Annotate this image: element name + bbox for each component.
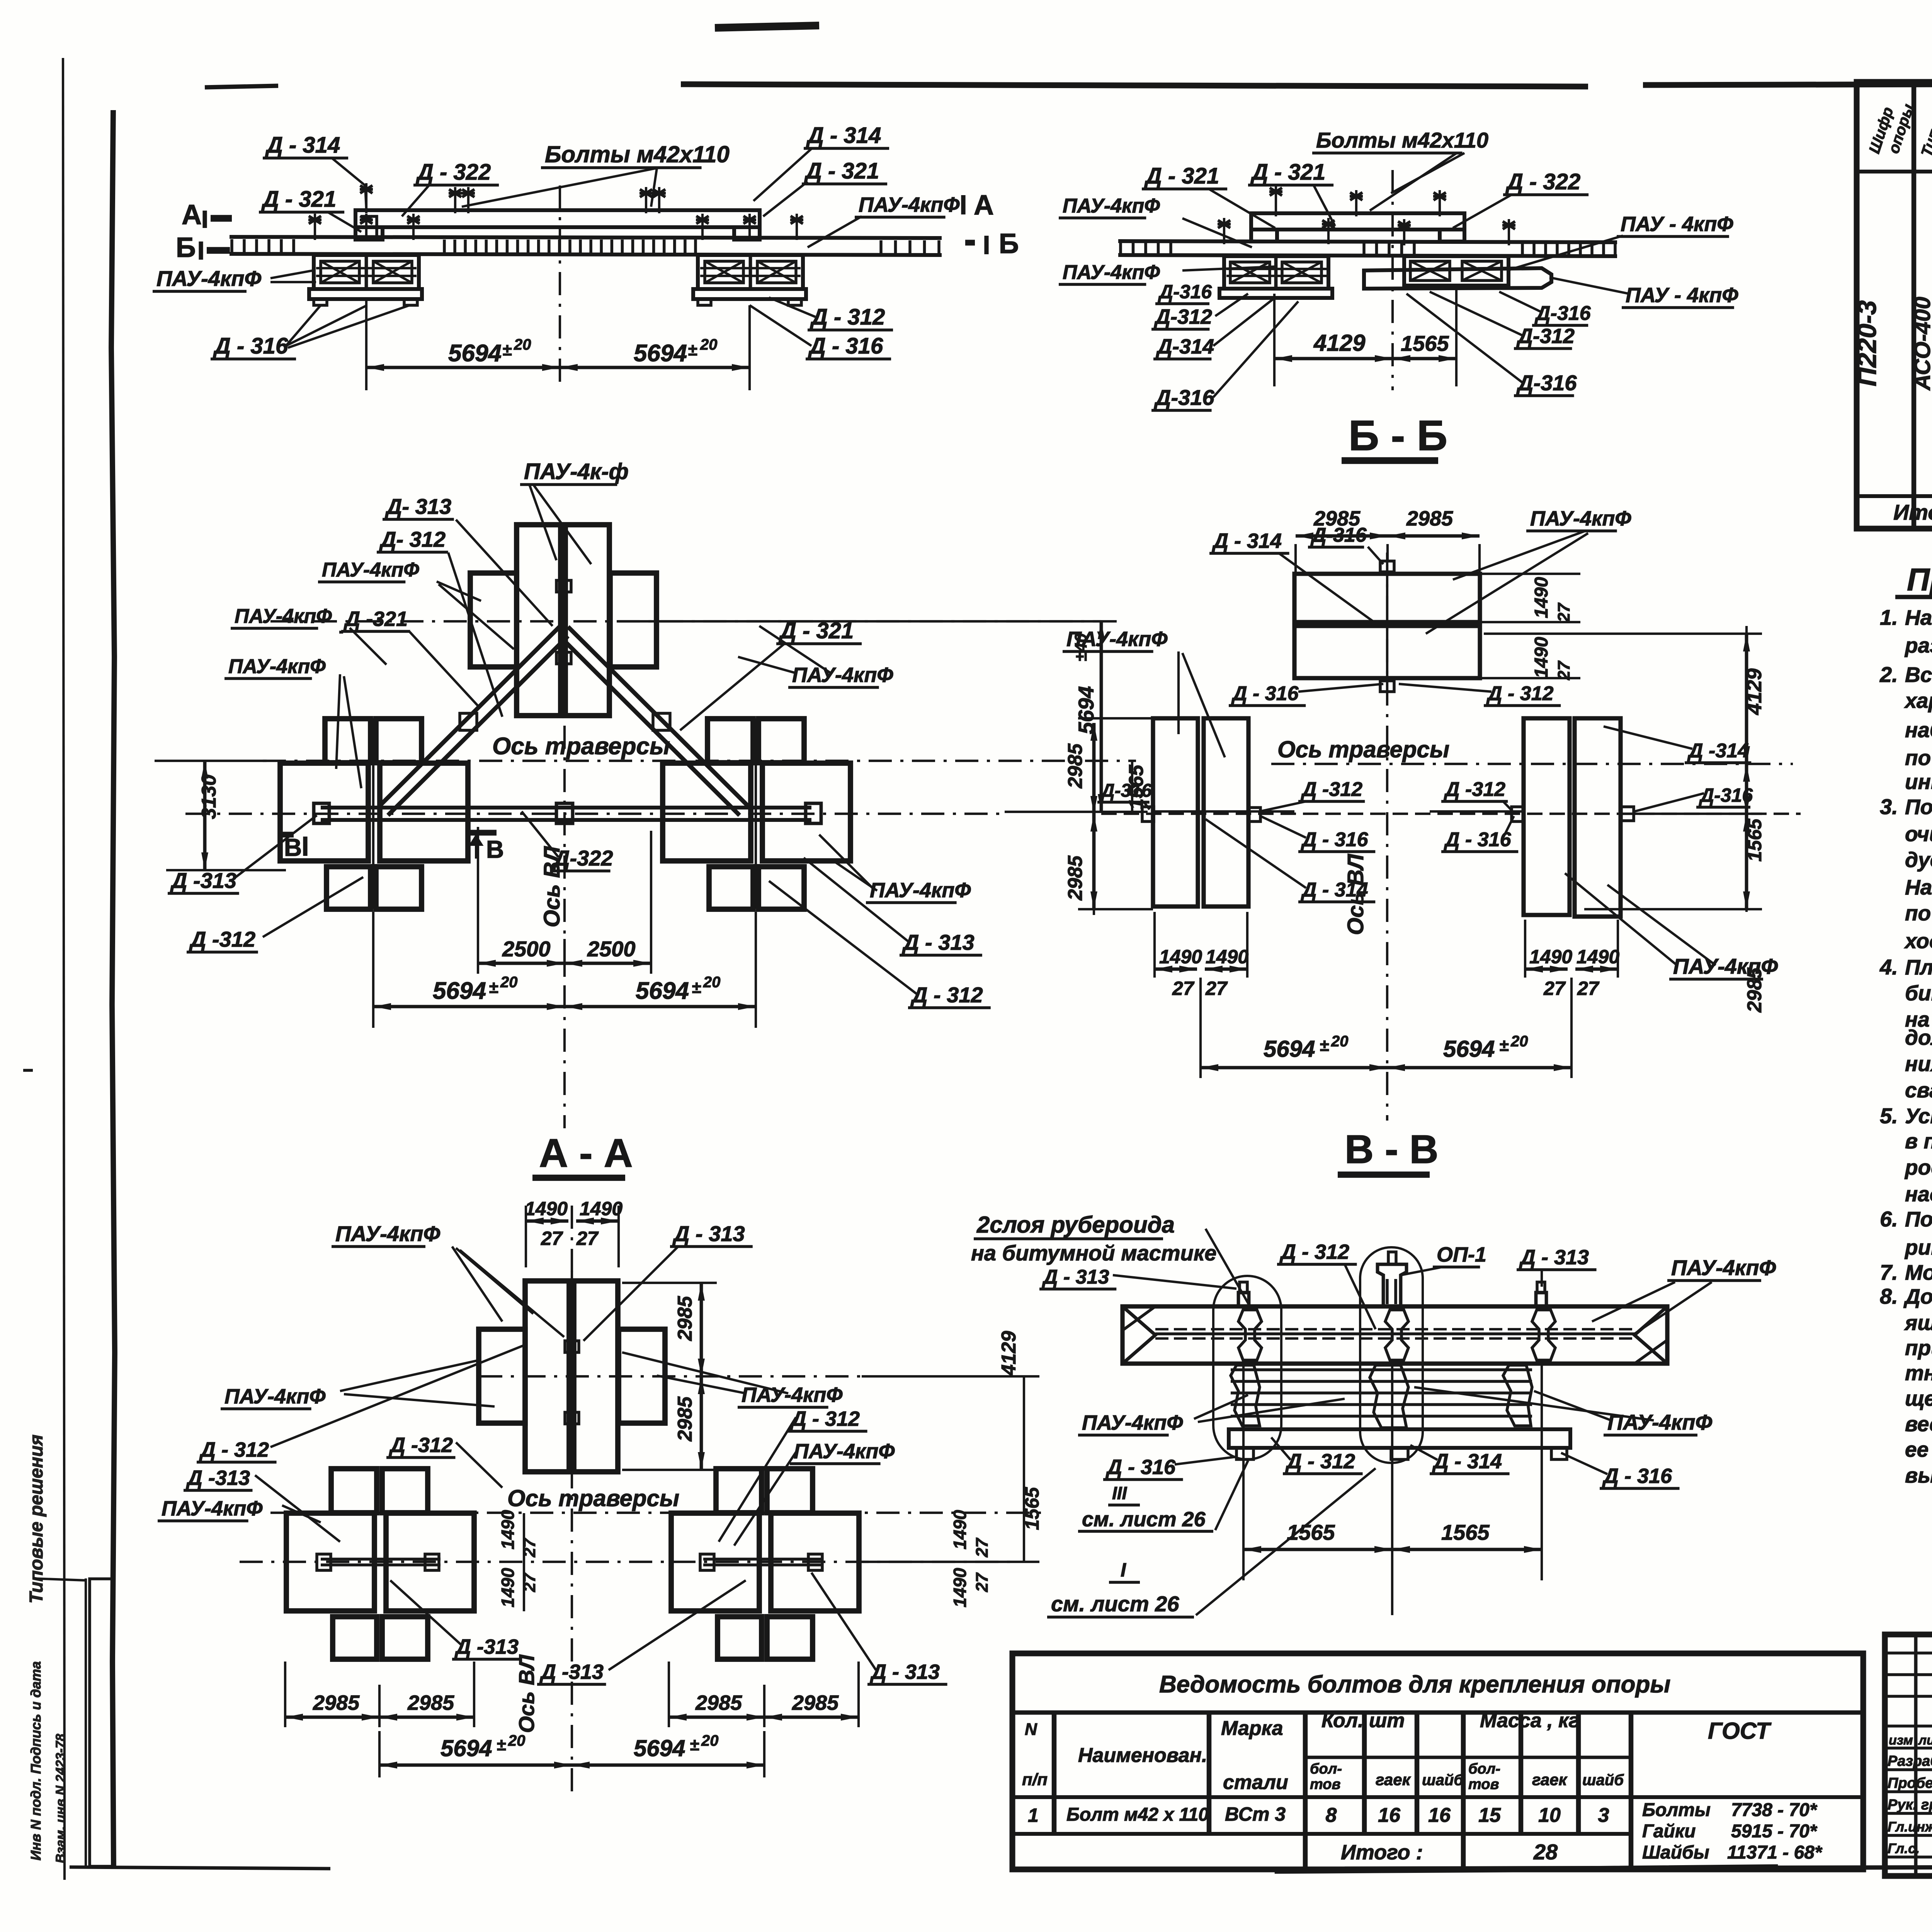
svg-text:Д - 321: Д - 321	[261, 187, 336, 212]
svg-text:5915 - 70*: 5915 - 70*	[1731, 1821, 1818, 1842]
svg-text:ПАУ - 4кпФ: ПАУ - 4кпФ	[1621, 213, 1733, 236]
view2: lower beam lines	[1118, 241, 1617, 242]
view5: bottom-right cross A-A	[671, 1513, 759, 1611]
svg-text:щебнем, камнем неизвестковых: щебнем, камнем неизвестковых пород с объ…	[1905, 1386, 1932, 1410]
svg-text:28: 28	[1533, 1840, 1558, 1864]
svg-text:Д - 312: Д - 312	[790, 1407, 860, 1430]
view3: beam right end connector	[806, 803, 821, 823]
view5: dim 2985 2985 bottom-right	[668, 1662, 670, 1727]
svg-text:1565: 1565	[1021, 1487, 1043, 1530]
svg-text:2985: 2985	[674, 1396, 696, 1442]
svg-text:±: ±	[688, 340, 697, 359]
svg-text:1490: 1490	[498, 1568, 518, 1607]
view6: leader ruberoid	[1206, 1229, 1252, 1310]
svg-text:±: ±	[1320, 1036, 1329, 1055]
svg-text:Д -321: Д -321	[344, 607, 408, 631]
svg-text:А: А	[974, 190, 994, 221]
view6: bolt right on beam top	[1536, 1293, 1546, 1306]
svg-text:ПАУ-4кпФ: ПАУ-4кпФ	[1530, 507, 1631, 530]
view6: vertical bolt lines downward	[1242, 1364, 1245, 1580]
view4: right group axis hardware	[1512, 807, 1523, 821]
svg-text:Д - 316: Д - 316	[213, 333, 288, 359]
svg-text:ПАУ-4кпФ: ПАУ-4кпФ	[335, 1221, 440, 1246]
svg-text:Установка опоры производится: Установка опоры производится после опуск…	[1905, 1104, 1932, 1128]
svg-text:20: 20	[500, 974, 518, 991]
view4: left vertical dim 2985x2	[1093, 723, 1095, 915]
sheet frame: bottom border left segment	[70, 1867, 330, 1869]
svg-text:Болт м42 х 110: Болт м42 х 110	[1066, 1804, 1209, 1825]
svg-text:Д - 314: Д - 314	[1301, 879, 1368, 901]
svg-text:8: 8	[1326, 1804, 1337, 1827]
svg-text:20: 20	[508, 1732, 526, 1749]
svg-text:Примечания: Примечания	[1907, 562, 1932, 597]
svg-text:I: I	[1121, 1559, 1126, 1581]
view3: right dim 5694+-40 rotated	[1100, 621, 1102, 812]
svg-text:Поверхность в месте установк: Поверхность в месте установки ф-та должн…	[1905, 795, 1932, 819]
svg-text:ПАУ-4кпФ: ПАУ-4кпФ	[235, 605, 332, 628]
view5: axis os traversy A-A	[270, 1512, 1043, 1514]
svg-text:Допускается применение фунда: Допускается применение фундаментных блок…	[1903, 1284, 1932, 1308]
svg-text:ПАУ-4кпФ: ПАУ-4кпФ	[228, 655, 326, 678]
svg-text:5694: 5694	[1264, 1036, 1315, 1062]
svg-text:наблюдения в процессе монтаж: наблюдения в процессе монтажа приведены …	[1905, 718, 1932, 742]
svg-text:в проектное положение , при: в проектное положение , при этом верхние…	[1905, 1129, 1932, 1153]
svg-text:ВСт 3: ВСт 3	[1225, 1803, 1286, 1825]
svg-text:бол-: бол-	[1468, 1761, 1500, 1777]
svg-text:1490: 1490	[1159, 946, 1202, 968]
svg-text:Д - 312: Д - 312	[910, 983, 983, 1007]
svg-text:Д - 314: Д - 314	[1432, 1450, 1502, 1473]
svg-text:инв N 1750 - 21 - 77 , Э С П: инв N 1750 - 21 - 77 , Э С П , Свердловс…	[1905, 770, 1932, 794]
table2: outer frame	[1012, 1653, 1863, 1869]
svg-text:1565: 1565	[1441, 1520, 1490, 1544]
svg-text:Ось траверсы: Ось траверсы	[507, 1485, 679, 1511]
svg-text:Д- 312: Д- 312	[379, 527, 446, 551]
view6: bottom plate feet	[1236, 1448, 1253, 1459]
view2: top rostverk beam (elevation)	[1251, 213, 1464, 230]
view3: bottom-right foundation cross (plan)	[663, 763, 751, 861]
view1: ground hatch right	[879, 240, 883, 253]
view5: bottom-left cross A-A	[286, 1513, 374, 1611]
svg-text:Д - 316: Д - 316	[1444, 828, 1512, 851]
svg-text:1565: 1565	[1287, 1520, 1335, 1544]
svg-text:Б: Б	[176, 232, 196, 263]
view3: right dim 1565 rotated	[1131, 761, 1133, 812]
view3: central hinge on beam	[556, 803, 573, 823]
svg-text:Д-314: Д-314	[1156, 335, 1214, 358]
svg-text:15: 15	[1478, 1804, 1501, 1827]
view2: left assembly inner detail lines	[1226, 268, 1327, 270]
view1: dimension extension line right	[748, 305, 751, 390]
svg-text:2500: 2500	[587, 937, 636, 961]
view2: anchor bolts on beams view2	[1275, 185, 1277, 216]
svg-text:ПАУ-4кпФ: ПАУ-4кпФ	[1673, 954, 1778, 978]
svg-text:Д -313: Д -313	[186, 1466, 250, 1490]
view1: ground hatch middle	[443, 240, 446, 253]
svg-text:5694: 5694	[636, 978, 689, 1004]
svg-text:27: 27	[1205, 978, 1228, 999]
svg-text:20: 20	[514, 336, 531, 353]
view6: web stiffeners on beam	[1238, 1310, 1262, 1360]
svg-text:гаек: гаек	[1532, 1770, 1568, 1789]
view3: left dim 3130 rotated	[203, 761, 207, 870]
svg-text:1490: 1490	[1206, 946, 1248, 968]
svg-text:20: 20	[701, 1732, 719, 1749]
svg-text:Кол. шт: Кол. шт	[1321, 1709, 1405, 1732]
view1: right assembly bottom plate	[693, 289, 806, 299]
view4: top plate bolt line	[1386, 565, 1388, 692]
view2: right long plate seen edge-on (PAU)	[1364, 268, 1551, 289]
svg-text:изм: изм	[1889, 1733, 1913, 1748]
svg-text:ПАУ-4кпФ: ПАУ-4кпФ	[1082, 1411, 1183, 1434]
svg-text:Д - 313: Д - 313	[902, 930, 975, 954]
svg-text:11371 - 68*: 11371 - 68*	[1727, 1842, 1823, 1863]
view3: bolt lines through bottom crosses	[372, 718, 374, 909]
svg-text:АСО-400: АСО-400	[1910, 297, 1932, 391]
table1: outer frame	[1857, 82, 1932, 529]
svg-text:27: 27	[973, 1537, 992, 1558]
table2: vertical lines	[1052, 1713, 1057, 1834]
view1: leader D-314 left	[332, 158, 365, 185]
view2: left assembly bottom plate	[1219, 289, 1332, 298]
view6: left detail capsule outline	[1213, 1276, 1281, 1459]
svg-text:см. лист 26: см. лист 26	[1082, 1508, 1206, 1531]
svg-text:Д-312: Д-312	[1516, 325, 1575, 348]
svg-text:Д - 321: Д - 321	[1144, 163, 1219, 189]
view2: dim line 1565	[1393, 357, 1456, 361]
svg-text:на битумной мастике: на битумной мастике	[971, 1241, 1216, 1265]
svg-text:Д-316: Д-316	[1534, 302, 1591, 325]
svg-text:4129: 4129	[1313, 330, 1366, 356]
view5: bolt line through top cross A-A	[571, 1271, 573, 1472]
svg-text:Инв N подл. Подпись и дата: Инв N подл. Подпись и дата	[28, 1661, 44, 1861]
svg-text:На проектную отметку ф-т оп: На проектную отметку ф-т опускается путе…	[1905, 875, 1932, 899]
titleblock: left section verticals	[1914, 1634, 1918, 1876]
svg-text:3130: 3130	[198, 774, 220, 819]
svg-text:Болты м42х110: Болты м42х110	[1316, 128, 1488, 152]
view3: dim 2500 2500	[477, 827, 479, 974]
svg-text:Д - 316: Д - 316	[808, 333, 883, 359]
sheet frame: top border left segment	[681, 84, 1588, 87]
view1: center axis line	[559, 185, 561, 390]
svg-text:1490: 1490	[580, 1198, 622, 1219]
table2: data row bottom line	[1012, 1832, 1631, 1836]
svg-text:Ось траверсы: Ось траверсы	[1277, 736, 1449, 762]
svg-text:по его контуру на расстоянии: по его контуру на расстоянии 1м . При оп…	[1905, 901, 1932, 925]
view3: vertical axis Os VL	[563, 553, 566, 1128]
view3: beam left end connector	[314, 803, 329, 823]
svg-text:20: 20	[703, 974, 721, 991]
svg-text:Д - 321: Д - 321	[1250, 160, 1325, 185]
svg-text:Д-322: Д-322	[553, 846, 613, 870]
view6: beam end X left	[1122, 1306, 1155, 1364]
svg-text:N: N	[1025, 1720, 1037, 1739]
svg-text:8.: 8.	[1880, 1284, 1898, 1308]
misc: small stamp box far bottom-left of title area	[90, 1579, 114, 1866]
view1: dimension line 5694+-20 left segment	[366, 366, 560, 369]
svg-text:ПАУ-4кпФ: ПАУ-4кпФ	[322, 559, 419, 581]
view5: axis through A-A bottom cross row	[240, 1561, 1012, 1563]
svg-text:Взам. инв N 2423-78: Взам. инв N 2423-78	[53, 1734, 68, 1863]
svg-text:2985: 2985	[1406, 507, 1453, 530]
svg-text:Д - 316: Д - 316	[1105, 1456, 1176, 1479]
view2: dim ext lines view2	[1273, 294, 1276, 386]
svg-text:ПАУ - 4кпФ: ПАУ - 4кпФ	[1626, 284, 1738, 307]
svg-text:4129: 4129	[998, 1331, 1020, 1376]
svg-text:высота пригруза h = 0.3 м: высота пригруза h = 0.3 м , Вес Q = 2.0 …	[1905, 1463, 1932, 1487]
svg-text:После установки опоры шайбы: После установки опоры шайбы анкерных бол…	[1905, 1207, 1932, 1231]
svg-text:5694: 5694	[440, 1735, 492, 1761]
view2: left block assembly	[1224, 256, 1328, 289]
svg-text:Б - Б: Б - Б	[1349, 412, 1447, 459]
svg-text:Болты: Болты	[1642, 1800, 1711, 1820]
svg-text:16: 16	[1378, 1804, 1401, 1827]
table1: itogo row top line	[1857, 494, 1932, 498]
svg-text:ПАУ-4кпФ: ПАУ-4кпФ	[224, 1385, 326, 1408]
view3: diagonal beam left (D-321)	[379, 627, 560, 807]
svg-text:В - В: В - В	[1345, 1127, 1439, 1172]
svg-text:П220-3: П220-3	[1852, 300, 1882, 386]
view5: dim 5694+-20 x2 A-A	[378, 1731, 381, 1777]
svg-text:тных блоков , которую следу: тных блоков , которую следует производит…	[1905, 1361, 1932, 1385]
svg-text:Шайбы: Шайбы	[1642, 1842, 1709, 1863]
sheet frame: bottom heavy smudge streak	[1275, 1865, 1777, 1873]
svg-text:Плиты фундаментных блоков: Плиты фундаментных блоков должны быть по…	[1905, 955, 1932, 979]
svg-text:±: ±	[690, 1735, 699, 1754]
sheet frame: top-center smudge	[715, 26, 819, 28]
view6: rebar chain line through beam	[1155, 1332, 1634, 1335]
view1: beam left end hook detail D-321	[355, 210, 383, 240]
svg-text:2985: 2985	[313, 1691, 360, 1714]
view6: center detail capsule outline	[1360, 1247, 1423, 1463]
view3: dim 5694+-20 x2 bottom	[372, 912, 374, 1028]
svg-text:ПАУ-4кпФ: ПАУ-4кпФ	[156, 266, 262, 291]
view3: top center foundation cross (plan)	[517, 525, 561, 716]
svg-text:Гайки: Гайки	[1642, 1821, 1696, 1842]
svg-text:Д - 316: Д - 316	[1602, 1464, 1672, 1488]
svg-text:2985: 2985	[695, 1691, 742, 1714]
svg-text:по расчету и проектированию: по расчету и проектированию плавающих ф-…	[1905, 746, 1932, 770]
svg-text:Д - 314: Д - 314	[806, 123, 881, 148]
view2: center axis view2	[1391, 170, 1394, 390]
svg-text:ОП-1: ОП-1	[1437, 1243, 1486, 1266]
svg-text:Ось ВЛ: Ось ВЛ	[514, 1654, 539, 1733]
svg-text:ПАУ-4кпФ: ПАУ-4кпФ	[1671, 1255, 1776, 1280]
svg-text:Д -313: Д -313	[454, 1635, 519, 1658]
svg-text:Д-316: Д-316	[1100, 781, 1152, 801]
svg-text:А: А	[182, 199, 202, 230]
svg-text:стали: стали	[1223, 1771, 1288, 1794]
svg-text:Д -313: Д -313	[539, 1660, 604, 1684]
view3: diagonal beam right (D-321)	[568, 627, 749, 807]
svg-text:шайб: шайб	[1422, 1772, 1464, 1789]
svg-text:1490: 1490	[1531, 637, 1552, 678]
view5: far right dim 4129/1565 A-A	[1023, 1376, 1025, 1562]
svg-text:А - А: А - А	[539, 1131, 633, 1176]
svg-text:5.: 5.	[1880, 1104, 1898, 1128]
svg-text:2500: 2500	[502, 937, 551, 961]
svg-text:ГОСТ: ГОСТ	[1708, 1718, 1772, 1744]
view1: ground hatch left	[230, 239, 233, 252]
sheet frame: outer thin left border line	[63, 58, 65, 1880]
view2: dim line 4129	[1274, 357, 1393, 361]
svg-text:см. лист 26: см. лист 26	[1051, 1592, 1179, 1616]
svg-text:ходимо обеспечить его устой: ходимо обеспечить его устойчивость .	[1904, 929, 1932, 953]
svg-text:16: 16	[1428, 1804, 1451, 1827]
view3: bottom-left foundation cross (plan)	[280, 763, 368, 861]
view4: right slab pair (vertical)	[1524, 718, 1570, 915]
view2: right block assembly	[1404, 256, 1509, 286]
view3: bolt line through top cross	[562, 525, 565, 716]
svg-text:ПАУ-4кпФ: ПАУ-4кпФ	[794, 1440, 895, 1463]
svg-text:В: В	[486, 835, 504, 863]
svg-text:2985: 2985	[1064, 743, 1087, 789]
view6: lower slab assembly stack lines	[1231, 1368, 1532, 1371]
svg-text:Гл.с.: Гл.с.	[1888, 1840, 1920, 1856]
svg-text:27: 27	[1554, 602, 1573, 622]
svg-text:ПАУ-4кпФ: ПАУ-4кпФ	[1063, 195, 1160, 217]
svg-text:27: 27	[1577, 978, 1600, 999]
svg-text:1490: 1490	[525, 1198, 568, 1219]
svg-text:Ось траверсы: Ось траверсы	[492, 733, 670, 760]
view3: axis through bottom cross row	[185, 813, 1005, 815]
sheet frame: small top-left corner mark	[205, 86, 278, 87]
svg-text:Д - 313: Д - 313	[1519, 1246, 1589, 1269]
svg-text:1490: 1490	[950, 1510, 970, 1549]
view5: right dim 2985 x2 A-A top cross	[700, 1283, 702, 1470]
svg-text:ее равномерно в плоскостях: ее равномерно в плоскостях верхних плит	[1905, 1437, 1932, 1461]
view4: top plate pair (horizontal slabs)	[1294, 574, 1480, 622]
svg-text:Итого на опору: Итого на опору	[1893, 500, 1932, 524]
svg-text:Наименован.: Наименован.	[1078, 1744, 1207, 1767]
svg-text:Д -312: Д -312	[389, 1434, 453, 1457]
svg-text:Д - 312: Д - 312	[1285, 1450, 1355, 1473]
svg-text:Д - 321: Д - 321	[804, 158, 879, 184]
view3: axis os traversy (dash-dot horizontal)	[263, 760, 1136, 762]
svg-text:5694: 5694	[634, 1735, 685, 1761]
table2: title band line	[1012, 1710, 1863, 1714]
view1: anchor bolts on lower beam left	[314, 214, 316, 240]
view1: beam right end hook detail D-321	[734, 210, 760, 240]
svg-text:Д- 313: Д- 313	[385, 494, 451, 519]
svg-text:20: 20	[1510, 1033, 1528, 1050]
svg-text:ПАУ-4кпФ: ПАУ-4кпФ	[859, 193, 960, 216]
table1: header bottom line	[1857, 170, 1932, 173]
svg-text:27: 27	[1172, 978, 1195, 999]
svg-text:27: 27	[576, 1228, 599, 1249]
svg-text:±: ±	[497, 1735, 506, 1754]
svg-text:Д -312: Д -312	[1444, 778, 1505, 801]
view2: ground hatch mid	[1362, 242, 1366, 255]
view5: top cross A-A	[525, 1281, 569, 1472]
svg-text:1: 1	[1028, 1804, 1039, 1826]
view1: anchor bolts on top beam	[454, 187, 456, 213]
svg-text:тов: тов	[1468, 1776, 1499, 1793]
svg-text:Ведомость болтов для крепле: Ведомость болтов для крепления опоры	[1159, 1671, 1670, 1698]
left margin stamp box line	[85, 1578, 87, 1866]
svg-text:III: III	[1112, 1483, 1128, 1503]
view1: left foundation block assembly (PAU-4kpF stack)	[314, 255, 419, 289]
sheet frame: bottom border right segment	[1345, 1866, 1932, 1869]
svg-text:шайб: шайб	[1582, 1772, 1624, 1789]
svg-text:ПАУ-4кпФ: ПАУ-4кпФ	[1063, 261, 1160, 284]
view4: left slab pair (vertical)	[1153, 718, 1198, 906]
view4: left group axis hardware	[1142, 807, 1154, 821]
left margin small tick	[23, 1069, 33, 1072]
svg-text:Пробер.: Пробер.	[1888, 1775, 1932, 1791]
svg-text:ПАУ-4кпФ: ПАУ-4кпФ	[792, 663, 893, 687]
svg-text:Д -312: Д -312	[189, 927, 255, 951]
svg-text:бол-: бол-	[1310, 1761, 1342, 1777]
svg-text:5694: 5694	[634, 340, 687, 367]
svg-text:7.: 7.	[1880, 1260, 1898, 1284]
view1: lower continuous beam bottom line	[230, 254, 942, 255]
view1: top rostverk beam D-322 (elevation)	[355, 210, 760, 227]
svg-text:Разраб.: Разраб.	[1888, 1753, 1932, 1769]
svg-text:Д -314: Д -314	[1687, 740, 1749, 762]
svg-text:Д-316: Д-316	[1516, 371, 1577, 395]
table2: sub header split line	[1305, 1756, 1631, 1759]
view6: dim 1565 1565 V-V	[1243, 1548, 1392, 1551]
view4: dim 2985 2985 top	[1294, 544, 1297, 574]
svg-text:1.: 1.	[1880, 605, 1898, 629]
svg-text:27: 27	[973, 1572, 992, 1592]
view6: bottom plate beam V-V	[1229, 1429, 1570, 1448]
svg-text:20: 20	[700, 336, 718, 353]
svg-text:±: ±	[502, 340, 512, 359]
svg-text:над поверхностью болота .: над поверхностью болота .	[1905, 1182, 1932, 1206]
svg-text:п/п: п/п	[1022, 1770, 1048, 1789]
view6: bolt center (OP-1 hinge)	[1378, 1264, 1406, 1306]
svg-text:Д - 316: Д - 316	[1231, 682, 1299, 705]
svg-text:ПАУ-4к-ф: ПАУ-4к-ф	[524, 459, 629, 484]
svg-text:гаек: гаек	[1376, 1770, 1411, 1789]
svg-text:ПАУ-4кпФ: ПАУ-4кпФ	[162, 1497, 263, 1520]
view4: dim 5694+-20 x2 view4	[1199, 978, 1202, 1078]
view3: hinge joints on diagonals	[460, 713, 477, 730]
svg-text:Д - 314: Д - 314	[1212, 529, 1282, 553]
view6: main traverse beam (side view)	[1122, 1306, 1667, 1364]
view1: left assembly bottom plate	[309, 289, 422, 299]
view5: axis through A-A top cross center	[479, 1375, 862, 1378]
svg-text:5694: 5694	[433, 978, 486, 1004]
svg-text:Монтажные узлы см . на лис: Монтажные узлы см . на листе 26 .	[1905, 1260, 1932, 1284]
svg-text:лист: лист	[1918, 1733, 1932, 1748]
view3: horizontal beam D-322 between bottom crosses	[321, 806, 811, 810]
svg-text:ния монтажа ф-тов резьбу: ния монтажа ф-тов резьбу болтовых соедин…	[1905, 1052, 1932, 1076]
svg-text:1565: 1565	[1401, 331, 1449, 355]
svg-text:Масса , кг: Масса , кг	[1480, 1709, 1579, 1732]
svg-text:±: ±	[1499, 1036, 1509, 1055]
view6: lower assembly side webs	[1231, 1365, 1260, 1426]
svg-text:Гл.инжпр: Гл.инжпр	[1888, 1819, 1932, 1835]
svg-text:характеристики торфяных основа: характеристики торфяных оснований,требов…	[1904, 689, 1932, 713]
svg-text:Д - 312: Д - 312	[1486, 682, 1554, 705]
svg-text:4129: 4129	[1743, 668, 1766, 715]
svg-text:ПАУ-4кпФ: ПАУ-4кпФ	[1607, 1410, 1713, 1434]
svg-text:27: 27	[541, 1228, 563, 1249]
svg-text:20: 20	[1331, 1033, 1349, 1050]
svg-text:Д - 314: Д - 314	[265, 133, 340, 158]
svg-text:Д - 312: Д - 312	[1279, 1240, 1349, 1264]
svg-text:Настоящий установочный черте: Настоящий установочный чертеж фундамента…	[1905, 605, 1932, 629]
svg-text:2985: 2985	[407, 1691, 454, 1714]
svg-text:1565: 1565	[1744, 818, 1765, 862]
svg-text:Б: Б	[999, 228, 1019, 259]
svg-text:27: 27	[1543, 978, 1566, 999]
table1: vertical grid lines	[1912, 82, 1917, 529]
svg-text:Д -312: Д -312	[1301, 778, 1362, 801]
